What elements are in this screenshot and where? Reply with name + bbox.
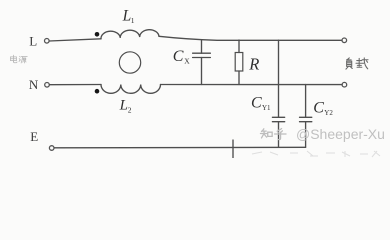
svg-text:C: C (313, 100, 324, 117)
label CY2 (313, 100, 333, 118)
svg-text:@Sheeper-Xu: @Sheeper-Xu (296, 126, 385, 142)
capacitor CY1 lead bottom (278, 122, 280, 148)
svg-text:N: N (29, 77, 39, 92)
inductor L1 (101, 30, 159, 39)
svg-text:C: C (173, 48, 184, 65)
capacitor CY2 lead top (305, 85, 307, 118)
wire E rail (54, 146, 306, 149)
capacitor CY1 lead top (278, 40, 280, 117)
svg-text:Y2: Y2 (324, 109, 333, 117)
wire L rail (49, 39, 101, 41)
terminal load L (342, 38, 347, 43)
svg-text:Y1: Y1 (262, 104, 271, 112)
capacitor CX plates (193, 53, 211, 57)
wire N rail right (161, 84, 343, 86)
inductor L2 (101, 85, 161, 94)
svg-text:X: X (184, 56, 190, 65)
terminal N (45, 83, 50, 88)
choke core (119, 52, 140, 73)
label L2 (119, 98, 132, 115)
svg-text:R: R (248, 55, 259, 74)
faint cropped glyphs bottom edge (252, 151, 380, 157)
terminal E (49, 146, 54, 151)
label CX (173, 48, 190, 65)
label CY1 (251, 94, 271, 112)
svg-text:E: E (30, 129, 38, 144)
polarity dot L1 (95, 32, 100, 37)
terminal L (45, 39, 50, 44)
polarity dot L2 (95, 89, 100, 94)
label 电源 (power source) (10, 55, 27, 63)
capacitor CY1 plates (272, 117, 284, 121)
svg-text:L: L (119, 98, 128, 114)
svg-text:L: L (29, 34, 37, 49)
svg-text:2: 2 (128, 106, 132, 115)
svg-text:L: L (122, 8, 132, 25)
resistor R leads (238, 40, 240, 85)
wire N rail (50, 84, 102, 86)
label 负载 (load) (346, 58, 368, 69)
label L1 (122, 8, 135, 26)
svg-text:1: 1 (131, 16, 135, 25)
watermark 知乎 (260, 129, 286, 140)
capacitor CX leads (201, 40, 203, 85)
wire L rail right (159, 36, 342, 40)
resistor R body (235, 53, 243, 72)
capacitor CY2 plates (300, 117, 312, 121)
svg-text:C: C (251, 94, 262, 111)
capacitor CY2 lead bottom (305, 122, 307, 148)
stub below E rail (232, 140, 234, 158)
terminal load N (342, 82, 347, 87)
